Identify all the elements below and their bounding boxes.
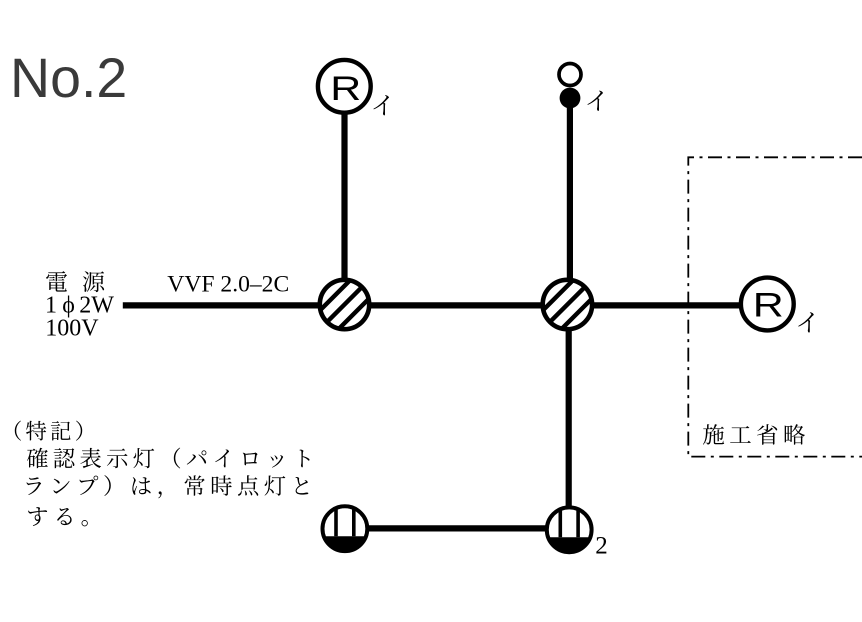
label イ (top lamp) bbox=[373, 95, 388, 115]
wire: ceiling body to junction box 2 bbox=[567, 107, 573, 281]
power source label 電源 bbox=[46, 271, 67, 292]
wire: junction box 2 down to switch 2 bbox=[566, 330, 572, 508]
note line 1 (特記) bbox=[15, 421, 82, 441]
svg-text:No.2: No.2 bbox=[10, 47, 127, 109]
dash-dot boundary of omitted work area bbox=[688, 157, 862, 456]
note line 4 bbox=[28, 507, 88, 526]
wire: power feed to junction box 1 bbox=[123, 302, 319, 308]
junction box J2 (VVF joint box, hatched circle) bbox=[538, 275, 597, 334]
label イ (right lamp) bbox=[798, 312, 813, 332]
switch with pilot lamp (bottom right), 2-gang bbox=[547, 507, 592, 552]
wire: junction box 2 to right lamp bbox=[593, 302, 741, 308]
junction box J1 (VVF joint box, hatched circle) bbox=[315, 275, 374, 334]
lamp receptacle R (right), circuit イ bbox=[741, 278, 794, 331]
svg-text:2: 2 bbox=[595, 533, 608, 560]
wire: top lamp to junction box 1 bbox=[341, 112, 347, 281]
svg-text:R: R bbox=[753, 287, 784, 325]
label イ (ceiling body) bbox=[587, 91, 602, 111]
svg-text:VVF 2.0–2C: VVF 2.0–2C bbox=[167, 271, 289, 297]
label 施工省略 bbox=[703, 424, 805, 445]
switch with pilot lamp (bottom left) bbox=[323, 506, 368, 551]
note line 3 bbox=[27, 475, 309, 498]
svg-text:R: R bbox=[330, 70, 361, 108]
wire: switch 1 to switch 2 bbox=[368, 525, 548, 531]
svg-text:100V: 100V bbox=[45, 316, 99, 342]
ceiling rosette body (circuit イ) bbox=[559, 64, 581, 109]
note line 2 bbox=[27, 448, 310, 469]
wire: junction box 1 to junction box 2 bbox=[370, 302, 542, 308]
lamp receptacle R (top), circuit イ bbox=[318, 60, 371, 113]
